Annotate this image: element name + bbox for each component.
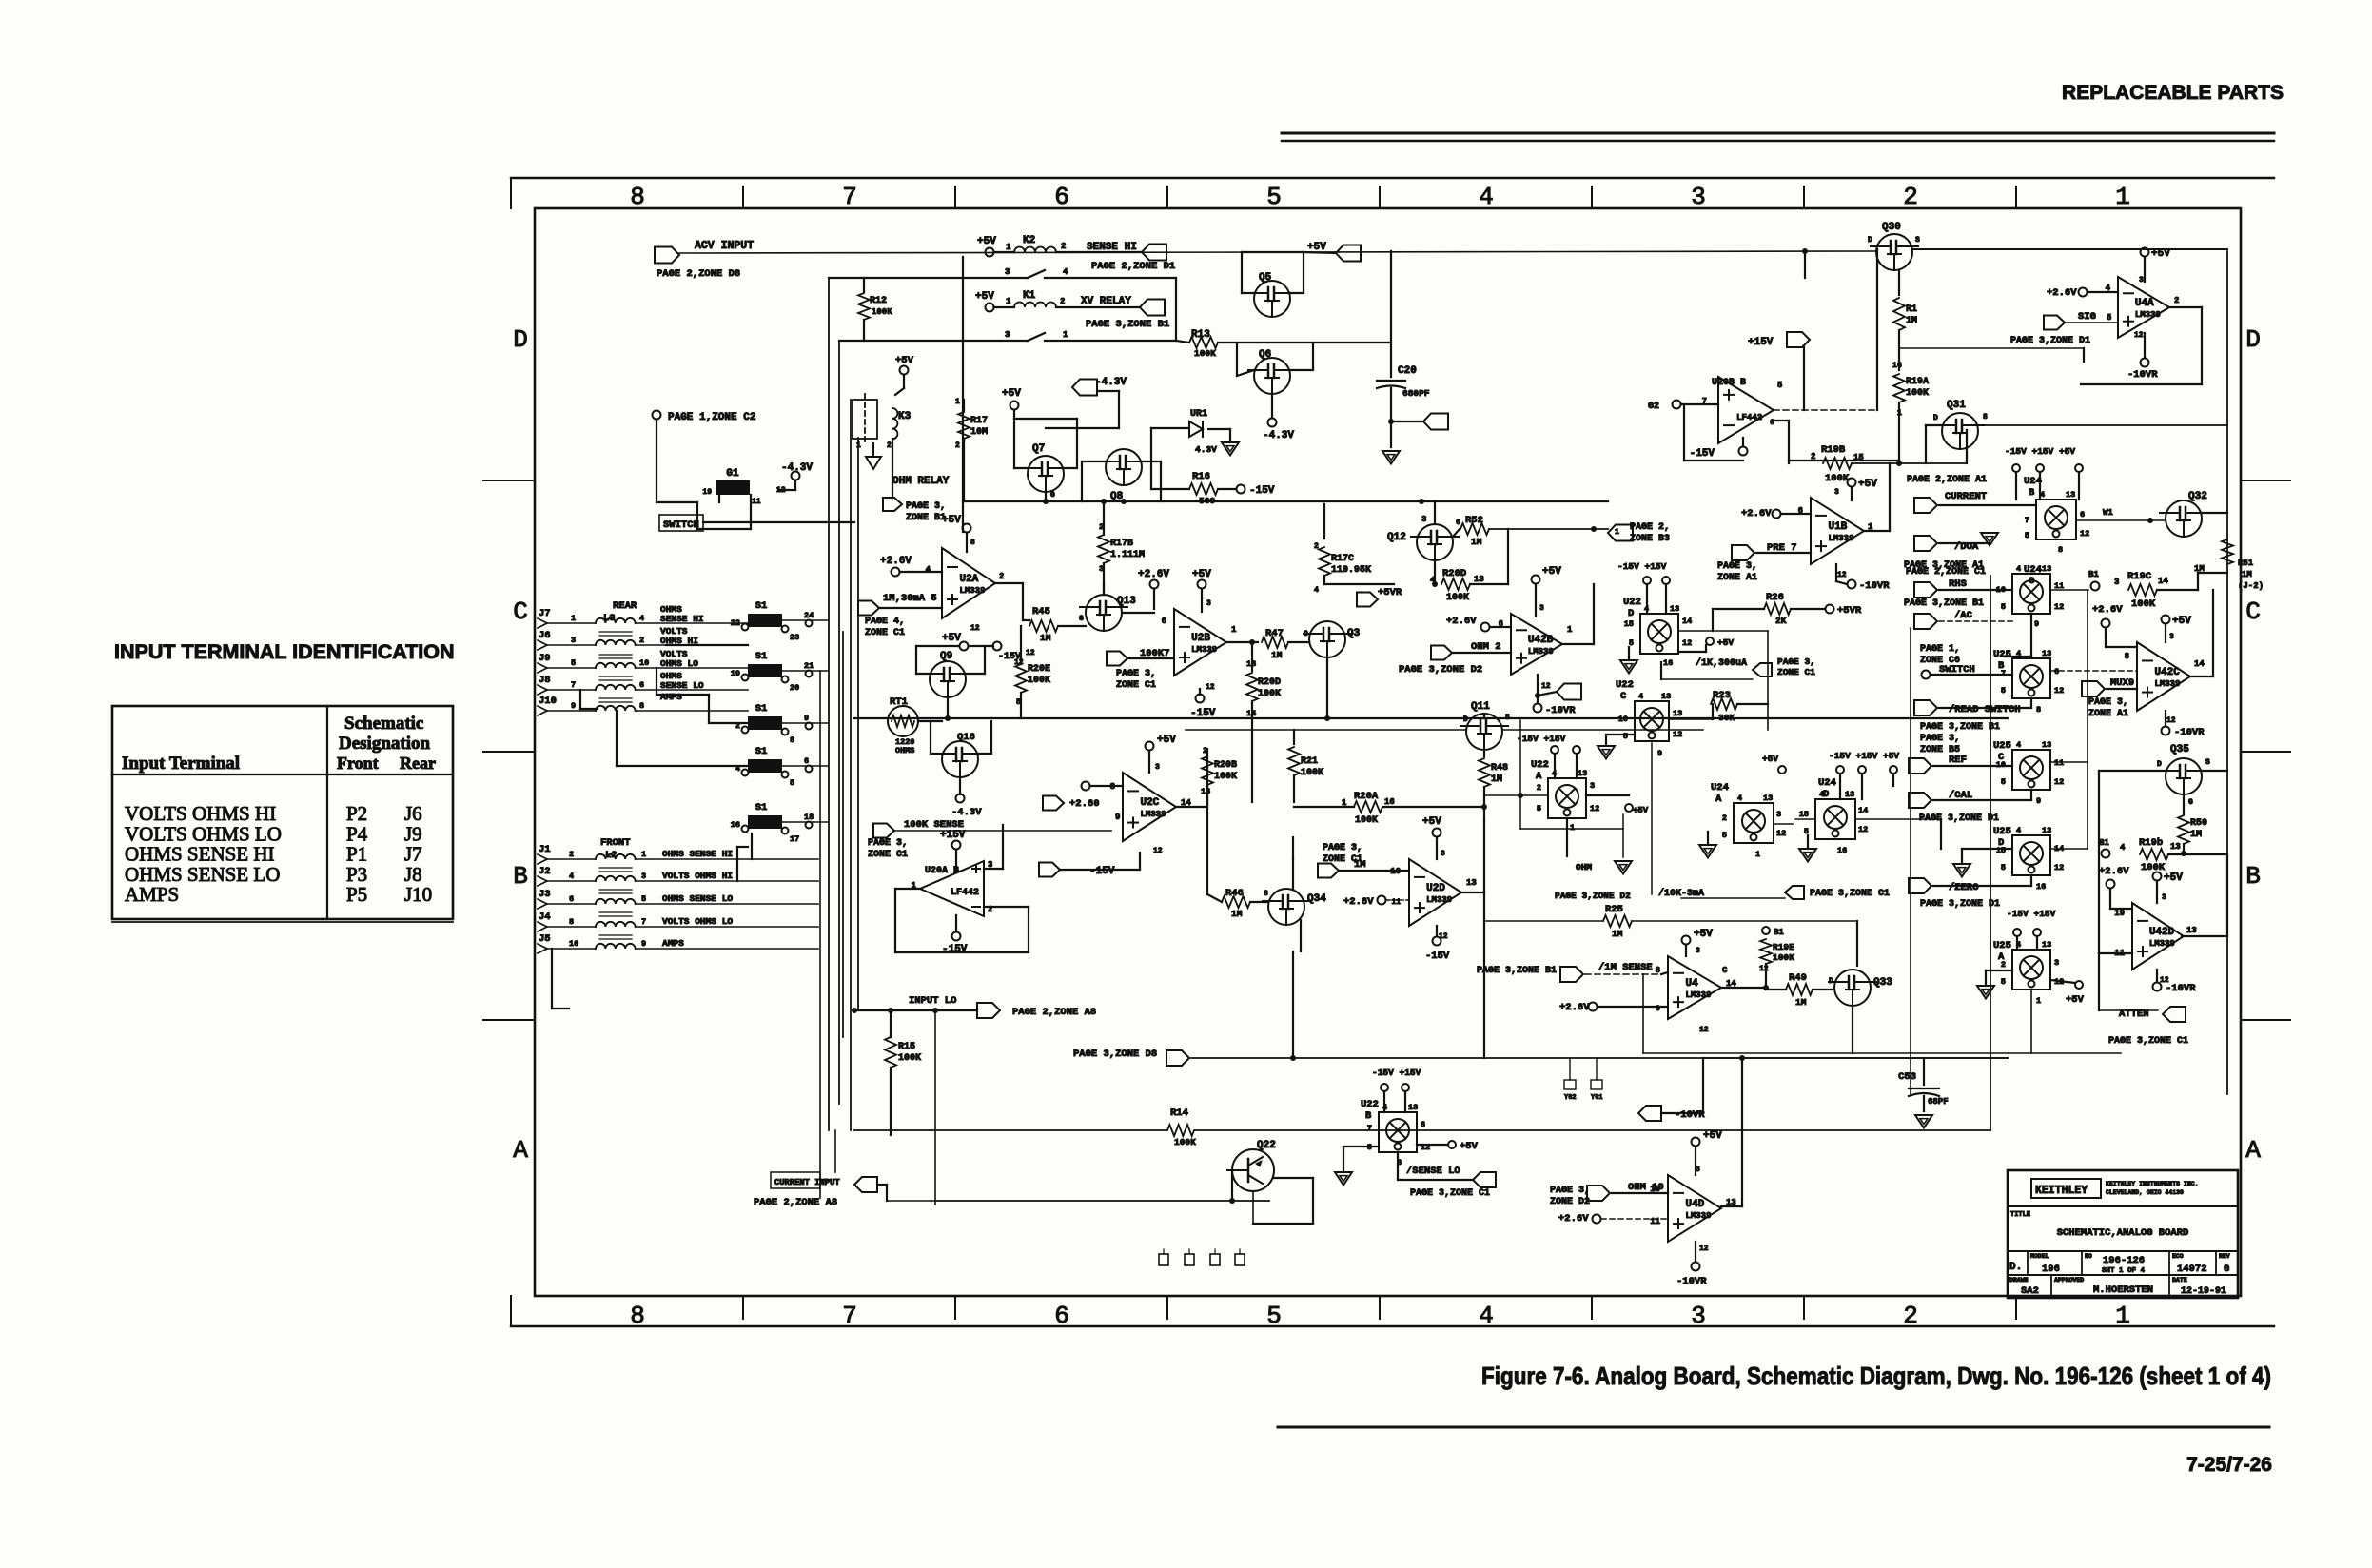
svg-text:100K: 100K — [898, 1053, 921, 1064]
svg-text:4: 4 — [2120, 843, 2126, 853]
svg-text:100K: 100K — [1258, 689, 1281, 699]
svg-text:13: 13 — [1763, 794, 1773, 803]
svg-text:SENSE HI: SENSE HI — [1087, 242, 1137, 253]
svg-text:+5V: +5V — [2066, 994, 2085, 1006]
svg-text:J10: J10 — [539, 696, 557, 707]
power +5V U42D — [2153, 872, 2162, 881]
svg-text:4: 4 — [926, 565, 931, 575]
svg-text:4: 4 — [2016, 740, 2021, 750]
svg-text:PAGE 3,: PAGE 3, — [1323, 843, 1362, 853]
svg-text:+5V: +5V — [975, 291, 994, 303]
svg-text:12: 12 — [1673, 730, 1682, 739]
svg-text:1M: 1M — [2190, 830, 2202, 840]
svg-text:PAGE 2,: PAGE 2, — [1630, 522, 1670, 533]
transistor Q32 — [2166, 500, 2202, 537]
svg-text:16: 16 — [2036, 882, 2046, 892]
ground U22D — [1620, 660, 1637, 674]
op-amp U2B — [1174, 609, 1226, 676]
svg-text:9: 9 — [2034, 619, 2039, 629]
svg-text:5: 5 — [2001, 777, 2006, 787]
svg-text:Y62: Y62 — [1564, 1094, 1577, 1102]
table box — [112, 706, 453, 919]
flag +5V — [1336, 245, 1361, 262]
svg-text:SWITCH: SWITCH — [663, 519, 699, 531]
svg-text:100K: 100K — [1906, 388, 1929, 399]
op-amp U42C — [2137, 642, 2190, 711]
wire L2 risers — [751, 833, 753, 859]
svg-text:-10VR: -10VR — [1675, 1109, 1705, 1121]
svg-text:FRONT: FRONT — [600, 837, 631, 849]
svg-text:1M: 1M — [1040, 633, 1051, 643]
svg-text:+5V: +5V — [1157, 735, 1176, 746]
bus y255 top right — [1802, 248, 1808, 254]
svg-text:/1K,300uA: /1K,300uA — [1696, 657, 1747, 669]
power +5V U4D — [1692, 1138, 1700, 1147]
svg-text:5: 5 — [2001, 602, 2006, 612]
transistor Q13 — [1086, 595, 1122, 631]
svg-text:+2.6V: +2.6V — [2047, 287, 2077, 299]
svg-text:A: A — [2245, 1136, 2261, 1165]
svg-text:10: 10 — [569, 939, 578, 949]
svg-text:-15V: -15V — [1089, 866, 1115, 877]
svg-text:12: 12 — [1541, 682, 1551, 691]
svg-text:3: 3 — [1691, 1302, 1706, 1330]
svg-text:PAGE 3,ZONE C1: PAGE 3,ZONE C1 — [1810, 889, 1890, 899]
svg-text:G2: G2 — [1648, 402, 1659, 412]
svg-text:A: A — [1536, 771, 1542, 782]
ground C20 — [1382, 451, 1400, 464]
svg-text:ZONE C1: ZONE C1 — [1116, 680, 1156, 691]
wire vertical x2008 — [1910, 628, 1911, 1094]
svg-text:7: 7 — [1367, 1124, 1372, 1133]
svg-text:6: 6 — [1264, 890, 1268, 898]
resistor R50 — [2178, 815, 2189, 844]
svg-text:XV RELAY: XV RELAY — [1081, 296, 1131, 307]
svg-text:/READ SWITCH: /READ SWITCH — [1949, 704, 2021, 715]
svg-text:100K: 100K — [1028, 676, 1050, 686]
svg-text:3: 3 — [1696, 947, 1700, 955]
power +5V U4A — [2141, 248, 2149, 257]
svg-text:-15V +15V: -15V +15V — [1517, 734, 1566, 744]
svg-text:3: 3 — [1005, 267, 1010, 277]
svg-text:PAGE 2,ZONE A8: PAGE 2,ZONE A8 — [754, 1197, 837, 1208]
svg-text:TITLE: TITLE — [2010, 1211, 2030, 1219]
resistor R17 10M — [963, 400, 965, 411]
svg-text:A: A — [1715, 794, 1722, 805]
svg-text:9: 9 — [1656, 1005, 1660, 1013]
svg-text:LM339: LM339 — [2135, 310, 2161, 320]
svg-text:G: G — [2188, 798, 2193, 807]
svg-text:LM339: LM339 — [1685, 990, 1711, 1000]
flag SENSE HI — [1142, 245, 1166, 261]
svg-text:Q3: Q3 — [1347, 628, 1361, 639]
svg-text:J9: J9 — [539, 653, 551, 664]
svg-text:4: 4 — [1638, 692, 1643, 701]
svg-text:3: 3 — [1539, 604, 1544, 613]
svg-text:MODEL: MODEL — [2030, 1253, 2049, 1260]
svg-text:+2.60: +2.60 — [1069, 798, 1100, 810]
svg-text:23: 23 — [790, 633, 799, 642]
svg-text:-10VR: -10VR — [1859, 580, 1890, 592]
svg-text:100K: 100K — [872, 307, 892, 317]
svg-text:13: 13 — [1845, 790, 1854, 799]
svg-text:UR1: UR1 — [1190, 409, 1207, 420]
svg-text:+5V: +5V — [1633, 806, 1649, 815]
svg-text:R12: R12 — [870, 296, 887, 306]
svg-text:9: 9 — [571, 701, 576, 711]
wire Q34 to bus — [1292, 951, 1294, 1058]
svg-text:AMPS: AMPS — [125, 883, 179, 906]
svg-text:10: 10 — [639, 658, 649, 668]
svg-text:PAGE 3,ZONE C1: PAGE 3,ZONE C1 — [1410, 1188, 1490, 1199]
capacitor C53 — [1923, 1058, 1925, 1085]
svg-text:16: 16 — [1201, 787, 1210, 796]
svg-text:4: 4 — [2040, 490, 2045, 500]
svg-text:-10VR: -10VR — [2174, 727, 2205, 738]
relay K2 — [986, 248, 994, 257]
svg-text:/10K-3mA: /10K-3mA — [1658, 888, 1704, 899]
svg-text:14: 14 — [2194, 659, 2205, 669]
power -10VR U42C — [2165, 711, 2166, 725]
wire U22C pin9 down — [1651, 743, 1653, 894]
svg-text:100K: 100K — [1214, 772, 1237, 782]
svg-text:U2B: U2B — [1191, 633, 1210, 644]
svg-text:+5V: +5V — [1694, 929, 1713, 940]
svg-text:13: 13 — [2042, 649, 2051, 658]
flag -4.3V left — [1072, 380, 1097, 396]
wire U42D out — [2182, 935, 2227, 937]
op-amp U2A — [942, 548, 995, 618]
svg-text:1.111M: 1.111M — [1110, 550, 1145, 560]
svg-text:PAGE 3,: PAGE 3, — [906, 501, 946, 512]
svg-text:LF442: LF442 — [1736, 413, 1762, 422]
wire U25D out — [2050, 848, 2088, 850]
wire U25A down — [2030, 990, 2032, 1053]
svg-text:J7: J7 — [539, 608, 551, 619]
svg-text:12: 12 — [2166, 716, 2176, 725]
fuse K3 dashed — [853, 400, 877, 439]
svg-text:13: 13 — [2042, 740, 2051, 750]
svg-text:SA2: SA2 — [2021, 1285, 2039, 1297]
svg-text:B: B — [1365, 1110, 1372, 1122]
svg-text:7: 7 — [842, 183, 857, 211]
svg-text:J4: J4 — [539, 911, 551, 923]
op-amp U4 — [1668, 956, 1721, 1019]
svg-text:U2A: U2A — [959, 574, 978, 585]
power -15V U20B — [1739, 447, 1748, 456]
svg-text:13: 13 — [1466, 878, 1477, 888]
svg-text:4: 4 — [1479, 183, 1494, 211]
svg-text:12: 12 — [1858, 825, 1868, 834]
flag /SENSE LO — [1397, 1152, 1399, 1180]
svg-text:14: 14 — [2158, 577, 2168, 586]
resistor R48 — [1483, 750, 1485, 756]
svg-text:-4.3V: -4.3V — [951, 807, 982, 818]
svg-text:D: D — [513, 325, 528, 354]
svg-text:-10VR: -10VR — [2166, 983, 2196, 994]
wire U22A out — [1484, 794, 1548, 796]
wire U24B out — [2076, 519, 2166, 521]
bus input buffer y1112 — [1191, 1057, 1484, 1059]
svg-text:1: 1 — [641, 850, 646, 859]
svg-text:ZONE A1: ZONE A1 — [2088, 709, 2128, 719]
svg-text:14: 14 — [1682, 617, 1692, 626]
svg-text:SIG: SIG — [2078, 311, 2096, 323]
svg-text:U4D: U4D — [1685, 1199, 1704, 1210]
op-amp U2D — [1409, 859, 1461, 926]
power +5V U42C — [2162, 616, 2170, 624]
svg-text:680PF: 680PF — [1402, 388, 1430, 399]
svg-text:-15V +15V +5V: -15V +15V +5V — [2005, 446, 2075, 457]
svg-text:K3: K3 — [898, 411, 912, 422]
transistor Q22 — [1232, 1149, 1274, 1191]
flag 100K SENSE — [873, 824, 894, 838]
wires S1 risers — [666, 644, 748, 646]
svg-text:2: 2 — [955, 441, 960, 450]
svg-text:PAGE 3,ZONE D2: PAGE 3,ZONE D2 — [1399, 664, 1482, 676]
svg-text:3: 3 — [641, 872, 646, 881]
flag 1K300 — [1753, 663, 1772, 676]
svg-text:SHT 1 OF 4: SHT 1 OF 4 — [2102, 1267, 2146, 1275]
svg-text:PAGE 2,ZONE C1: PAGE 2,ZONE C1 — [1906, 567, 1986, 578]
svg-text:PAGE 3,: PAGE 3, — [1717, 561, 1757, 572]
svg-text:14: 14 — [1858, 806, 1868, 815]
svg-text:7: 7 — [842, 1302, 857, 1330]
svg-text:PAGE 3,ZONE D2: PAGE 3,ZONE D2 — [1555, 891, 1631, 901]
svg-text:5: 5 — [2001, 686, 2006, 696]
svg-text:19: 19 — [702, 488, 712, 497]
svg-text:+2.6V: +2.6V — [2092, 604, 2123, 616]
svg-text:3: 3 — [2114, 578, 2119, 587]
wire U4A out loop — [2169, 306, 2202, 308]
svg-text:4: 4 — [639, 614, 644, 623]
svg-text:2: 2 — [1811, 452, 1815, 461]
svg-text:12: 12 — [1153, 847, 1163, 855]
svg-text:8: 8 — [1983, 413, 1988, 421]
svg-text:+5V: +5V — [1002, 388, 1021, 400]
svg-text:M.HOERSTEN: M.HOERSTEN — [2093, 1284, 2153, 1296]
svg-text:Q22: Q22 — [1257, 1140, 1276, 1151]
svg-text:-10VR: -10VR — [1545, 705, 1576, 716]
power +5V U22B — [1448, 1141, 1456, 1148]
power -15V U20A — [952, 932, 961, 941]
wire U4 out — [1721, 987, 1766, 989]
svg-text:12: 12 — [2054, 686, 2064, 696]
flag MUX9 — [2082, 681, 2105, 696]
svg-text:U25: U25 — [1993, 940, 2011, 951]
svg-text:6: 6 — [1456, 519, 1460, 527]
flag SIG — [2044, 316, 2065, 330]
svg-text:D: D — [1868, 236, 1872, 245]
transistor Q34 — [1268, 889, 1304, 925]
capacitor C20 — [1390, 251, 1392, 377]
node -4.3V — [792, 472, 800, 480]
wire U22D out — [1678, 630, 1768, 632]
flag PAGE3 ZONE B1 — [892, 439, 893, 498]
svg-text:Q7: Q7 — [1032, 443, 1045, 455]
svg-text:Q31: Q31 — [1947, 400, 1966, 411]
svg-text:10M: 10M — [970, 427, 988, 438]
transistor Q16 — [942, 741, 978, 777]
svg-text:DATE: DATE — [2172, 1277, 2187, 1284]
svg-text:D: D — [1463, 715, 1468, 724]
power +5V U42B — [1532, 576, 1540, 584]
svg-text:1: 1 — [1567, 625, 1573, 635]
svg-text:Q9: Q9 — [940, 651, 952, 662]
svg-text:5: 5 — [1266, 1302, 1282, 1330]
power +5V U2C — [1146, 742, 1154, 751]
wire U25C out — [2050, 761, 2088, 763]
svg-text:DRAWN: DRAWN — [2009, 1277, 2029, 1284]
svg-text:6: 6 — [1054, 1302, 1069, 1330]
transistor Q11 — [1466, 714, 1502, 750]
wire vertical x2194 — [2087, 590, 2088, 849]
svg-text:4: 4 — [1063, 267, 1068, 277]
svg-text:11: 11 — [752, 498, 761, 506]
svg-text:6: 6 — [2054, 667, 2059, 676]
vertical bus cluster — [828, 278, 830, 1130]
svg-text:REV: REV — [2219, 1253, 2230, 1260]
svg-text:Schematic: Schematic — [344, 714, 423, 734]
inductor K3 — [892, 408, 897, 439]
thermistor RT1 — [888, 706, 918, 736]
svg-text:Q34: Q34 — [1307, 893, 1326, 905]
svg-text:J1: J1 — [539, 844, 551, 855]
svg-text:+2.6V: +2.6V — [1558, 1213, 1589, 1225]
svg-text:J10: J10 — [404, 883, 432, 906]
svg-text:+5V: +5V — [942, 633, 961, 644]
svg-text:6: 6 — [2080, 510, 2085, 519]
svg-text:12: 12 — [1699, 1026, 1709, 1034]
svg-text:S: S — [2205, 758, 2210, 767]
svg-text:A: A — [513, 1136, 528, 1165]
svg-text:PAGE 3,ZONE B1: PAGE 3,ZONE B1 — [1920, 722, 2000, 733]
svg-text:196: 196 — [2042, 1264, 2060, 1275]
svg-text:C: C — [1620, 691, 1627, 702]
svg-text:-15V +15V +5V: -15V +15V +5V — [1829, 751, 1899, 761]
svg-text:100K: 100K — [2141, 862, 2166, 873]
svg-text:OHM 2: OHM 2 — [1471, 641, 1501, 653]
svg-text:B1: B1 — [1774, 928, 1784, 937]
svg-text:2: 2 — [1061, 242, 1066, 251]
svg-text:100K: 100K — [1355, 815, 1378, 826]
bus y1259 — [935, 1200, 1269, 1202]
svg-text:C: C — [513, 598, 528, 626]
svg-text:8: 8 — [790, 735, 794, 745]
svg-text:ZONE C1: ZONE C1 — [865, 628, 905, 638]
svg-text:17: 17 — [790, 834, 799, 844]
svg-text:13: 13 — [1673, 709, 1682, 718]
wire U4D out — [1721, 1205, 1742, 1207]
ground UR1 — [1222, 442, 1239, 456]
power +5V Q7 — [1010, 402, 1019, 410]
svg-text:5: 5 — [641, 894, 646, 904]
svg-text:R20E: R20E — [1028, 664, 1050, 675]
svg-text:6: 6 — [1162, 617, 1166, 626]
svg-text:+5V: +5V — [1762, 754, 1778, 764]
svg-text:R21: R21 — [1301, 756, 1318, 767]
node -4.3V Q6 — [1271, 394, 1273, 417]
svg-text:5: 5 — [2001, 977, 2006, 987]
wire U22A loop — [1519, 720, 1521, 829]
svg-text:INPUT TERMINAL IDENTIFICATION: INPUT TERMINAL IDENTIFICATION — [114, 640, 455, 663]
svg-text:16: 16 — [1384, 797, 1395, 807]
svg-text:12: 12 — [1699, 1245, 1709, 1253]
svg-text:+2.6V: +2.6V — [880, 556, 912, 567]
svg-text:2: 2 — [887, 441, 892, 450]
svg-text:P5: P5 — [346, 883, 367, 906]
ground U22B — [1335, 1172, 1352, 1186]
svg-text:R50: R50 — [2190, 818, 2207, 829]
svg-text:12: 12 — [1776, 829, 1786, 838]
flag XV RELAY — [1140, 300, 1165, 316]
svg-text:7: 7 — [641, 917, 646, 927]
svg-text:1M: 1M — [1271, 650, 1283, 660]
svg-text:2: 2 — [639, 636, 644, 645]
svg-text:1M: 1M — [1612, 929, 1623, 939]
svg-text:/ZERO: /ZERO — [1949, 882, 1979, 893]
flag -10VR bottom — [1638, 1106, 1661, 1121]
resistor R15 — [885, 1037, 896, 1068]
switch G1 — [716, 480, 750, 495]
svg-text:1: 1 — [1063, 330, 1068, 340]
zone band top line — [511, 177, 2274, 179]
svg-text:3: 3 — [1005, 330, 1010, 340]
svg-text:PAGE 3,: PAGE 3, — [1777, 657, 1815, 667]
svg-text:-15V: -15V — [1690, 448, 1715, 460]
svg-text:KEITHLEY INSTRUMENTS INC.: KEITHLEY INSTRUMENTS INC. — [2106, 1181, 2199, 1187]
svg-text:G: G — [1079, 615, 1084, 623]
svg-text:OHM: OHM — [1576, 862, 1592, 872]
svg-text:5: 5 — [1266, 183, 1282, 211]
svg-text:2: 2 — [999, 572, 1004, 581]
svg-text:R49: R49 — [1789, 972, 1807, 984]
svg-text:1M: 1M — [1471, 537, 1482, 547]
svg-text:12: 12 — [1206, 683, 1215, 692]
svg-text:RHS: RHS — [1949, 578, 1967, 590]
op-amp U42B — [1511, 614, 1562, 675]
svg-text:LM339: LM339 — [1528, 647, 1554, 657]
resistor R17C — [1323, 504, 1325, 539]
svg-text:11: 11 — [2054, 758, 2064, 768]
svg-text:6: 6 — [1421, 1120, 1425, 1129]
svg-text:LM339: LM339 — [959, 586, 985, 596]
svg-text:U24: U24 — [1711, 782, 1729, 794]
svg-text:R20B: R20B — [1214, 760, 1237, 771]
svg-text:1: 1 — [1006, 243, 1011, 252]
svg-text:LM339: LM339 — [1191, 645, 1217, 655]
node B1 R19C — [2091, 582, 2100, 591]
svg-text:-15V +15V: -15V +15V — [1372, 1068, 1421, 1078]
svg-text:G: G — [2224, 1264, 2229, 1275]
svg-text:5: 5 — [1623, 732, 1628, 741]
svg-text:R19b: R19b — [2139, 837, 2163, 849]
svg-text:+5V: +5V — [2151, 248, 2170, 260]
svg-text:3: 3 — [2162, 893, 2166, 902]
svg-text:U42B: U42B — [1528, 635, 1554, 646]
svg-text:12: 12 — [1026, 649, 1035, 657]
svg-text:4: 4 — [2016, 649, 2021, 658]
transistor Q9 — [930, 661, 966, 697]
svg-text:U42D: U42D — [2149, 927, 2175, 938]
svg-text:16: 16 — [1892, 361, 1902, 370]
svg-text:3: 3 — [1421, 515, 1426, 524]
svg-text:20: 20 — [790, 683, 799, 693]
wire Q12 drain — [1434, 560, 1436, 584]
svg-text:ZONE A1: ZONE A1 — [1717, 573, 1757, 583]
wire — [656, 420, 657, 502]
svg-text:S: S — [1915, 236, 1920, 245]
